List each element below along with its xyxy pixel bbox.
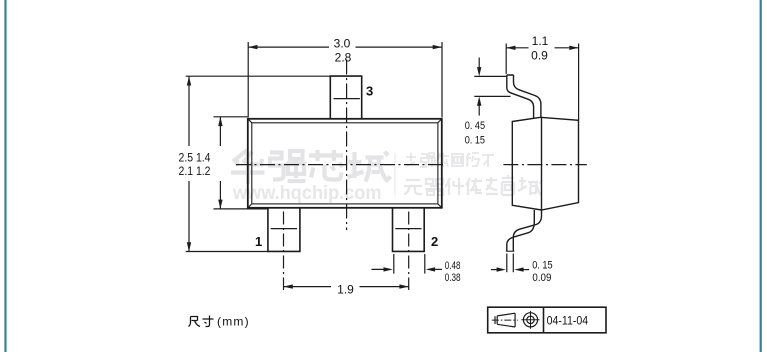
dim 0.15/0.09 extension lines below lead tip xyxy=(507,254,514,273)
body outer rectangle (front view) xyxy=(248,119,442,208)
extension line top of pin3 xyxy=(186,75,331,77)
dim 0.48/0.38 extension lines under pin 2 xyxy=(394,254,425,274)
extension line body top (for 1.4) xyxy=(214,116,248,118)
pin 2 (bottom right lead) xyxy=(393,208,425,252)
left teal page border xyxy=(4,0,6,352)
svg-text:2.1 1.2: 2.1 1.2 xyxy=(179,166,211,178)
projection symbol centerline xyxy=(492,319,518,321)
watermark big text 华强芯城 (drawn strokes, light gray) xyxy=(231,150,391,184)
dim 3.0/2.8 dimension line xyxy=(248,46,442,48)
watermark char cheng xyxy=(348,152,391,182)
svg-text:3.0: 3.0 xyxy=(334,37,351,51)
watermark right line2 元器件在线商城 xyxy=(404,175,542,195)
svg-text:1.9: 1.9 xyxy=(337,283,354,297)
svg-text:1: 1 xyxy=(255,234,262,249)
right teal page border xyxy=(760,0,762,352)
extension line body bottom (for 1.2) xyxy=(214,208,268,210)
lead edge line through body xyxy=(541,117,543,210)
pin 1 centerline xyxy=(283,212,285,291)
dim 1.9 dimension line xyxy=(284,286,409,288)
side view body polygon xyxy=(512,117,578,210)
svg-text:0.9: 0.9 xyxy=(531,48,548,62)
title block box xyxy=(488,307,606,333)
side view horizontal centerline xyxy=(503,164,586,166)
svg-text:0. 15: 0. 15 xyxy=(532,260,552,272)
dim 1.1/0.9 dimension line xyxy=(506,47,578,49)
watermark right line1 华强集团旗下 xyxy=(406,153,494,167)
watermark char xin xyxy=(309,150,343,180)
svg-text:0. 45: 0. 45 xyxy=(465,120,486,132)
body corner bevel diagonals xyxy=(248,119,442,208)
dim 0.45/0.15 extension lines xyxy=(474,76,510,96)
horizontal centerline of front view xyxy=(236,164,446,166)
watermark char hua xyxy=(231,150,265,184)
svg-text:2.8: 2.8 xyxy=(335,51,352,65)
svg-text:www.hqchip.com: www.hqchip.com xyxy=(232,183,381,204)
dim 0.48/0.38 arrows xyxy=(372,268,390,270)
svg-text:0.09: 0.09 xyxy=(532,272,551,284)
svg-text:0.38: 0.38 xyxy=(445,272,461,284)
pin 3 (top lead) xyxy=(330,76,361,119)
projection symbol frustum xyxy=(492,311,540,329)
pin 2 centerline xyxy=(408,212,410,291)
extension line pin bottom (for 2.1) xyxy=(186,251,268,253)
bottom lead tip tick xyxy=(506,250,514,252)
dim 1.1/0.9 extension lines xyxy=(506,44,578,121)
bottom lead (gull wing down) xyxy=(507,210,542,251)
svg-text:1.1: 1.1 xyxy=(532,34,549,48)
pin 1 cross tick xyxy=(271,228,297,230)
title block divider xyxy=(543,307,545,333)
left dim 1.4/1.2 line (inner) xyxy=(219,117,221,209)
pin 2 cross tick xyxy=(395,228,421,230)
svg-text:(mm): (mm) xyxy=(217,315,250,329)
svg-text:0. 15: 0. 15 xyxy=(465,134,485,146)
dim 3.0/2.8 extension lines xyxy=(248,42,442,118)
vertical centerline of front view xyxy=(346,60,348,231)
watermark char qiang xyxy=(270,151,306,181)
svg-text:3: 3 xyxy=(366,84,373,99)
left dim 2.5/2.1 line (outer) xyxy=(188,76,190,251)
pin 1 (bottom left lead) xyxy=(268,208,300,252)
svg-text:04-11-04: 04-11-04 xyxy=(547,313,589,327)
dim 0.45/0.15 arrows xyxy=(478,58,480,68)
watermark divider line xyxy=(394,153,395,196)
label 尺寸 (drawn) xyxy=(189,316,214,327)
projection symbol circle view xyxy=(523,313,537,327)
pin 3 cross tick xyxy=(334,98,360,100)
top lead (gull wing up) xyxy=(507,75,541,118)
svg-text:2: 2 xyxy=(431,234,438,249)
dim 0.15/0.09 arrows xyxy=(491,269,503,271)
svg-text:2.5 1.4: 2.5 1.4 xyxy=(179,152,212,164)
body inner bevel rectangle xyxy=(252,123,438,204)
svg-text:0.48: 0.48 xyxy=(445,260,461,272)
